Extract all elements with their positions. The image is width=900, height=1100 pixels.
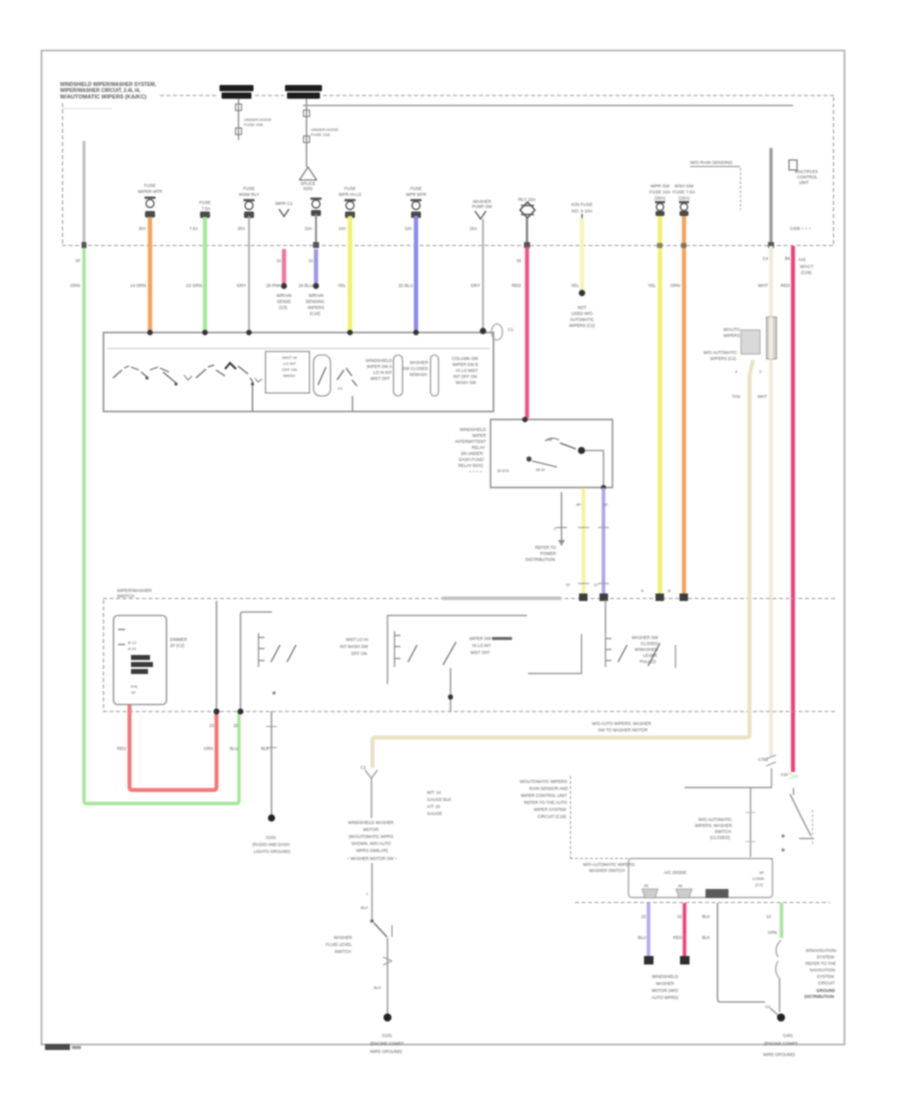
dashed fuse box boundary top <box>62 96 836 246</box>
svg-text:G201: G201 <box>266 835 277 840</box>
svg-text:WPR C1: WPR C1 <box>275 201 293 206</box>
svg-text:A10: A10 <box>781 772 789 777</box>
splice triangle label <box>301 181 316 191</box>
amperage label row y228 <box>139 226 478 231</box>
svg-text:WIPER CONTROL UNIT: WIPER CONTROL UNIT <box>521 793 568 798</box>
svg-text:MIST OFF: MIST OFF <box>471 650 491 655</box>
svg-text:REFER TO THE: REFER TO THE <box>806 961 837 966</box>
svg-text:COLUMN SW: COLUMN SW <box>452 356 478 361</box>
washer motor label mid <box>347 820 398 861</box>
stem tick label <box>361 892 369 910</box>
section 4 side pin <box>675 645 677 668</box>
wire PNK stub x284 <box>282 249 286 285</box>
svg-text:C1: C1 <box>508 327 514 332</box>
svg-text:WASHER: WASHER <box>334 935 352 940</box>
wire LT YEL x582 <box>580 218 584 291</box>
svg-text:WHT: WHT <box>757 394 767 399</box>
wire VIO stub x316 <box>314 249 318 285</box>
svg-text:BLK: BLK <box>361 906 369 910</box>
svg-text:GAUGE BLK: GAUGE BLK <box>427 797 451 802</box>
splice dot x284 <box>281 283 287 289</box>
inline connector marks <box>383 957 392 965</box>
ground label bottom middle <box>370 1033 404 1054</box>
svg-text:NAVIGATION: NAVIGATION <box>810 968 835 973</box>
svg-text:SHOWN, W/O AUTO: SHOWN, W/O AUTO <box>351 841 391 846</box>
wiper sw text block <box>366 358 393 381</box>
fuse F9 x684 <box>673 184 696 217</box>
intermittent relay box top line <box>491 420 613 488</box>
svg-text:10A: 10A <box>405 226 413 231</box>
drop wire x750 <box>750 788 752 857</box>
svg-text:FLUID LEVEL: FLUID LEVEL <box>326 942 353 947</box>
lower relay box title <box>664 870 687 875</box>
section 3 bracket <box>395 631 401 667</box>
svg-text:CONTROL: CONTROL <box>797 175 818 180</box>
svg-text:10A: 10A <box>339 226 347 231</box>
svg-text:~ WASHER MOTOR SW ~: ~ WASHER MOTOR SW ~ <box>347 856 398 861</box>
svg-text:C752: C752 <box>758 757 769 762</box>
wire GRY x240 hook <box>241 612 273 711</box>
svg-text:WINDSHIELD: WINDSHIELD <box>652 974 678 979</box>
wire VIO relay <box>602 488 606 595</box>
gray label band on separator <box>442 597 561 601</box>
svg-text:A 14: A 14 <box>128 646 137 651</box>
svg-text:22: 22 <box>677 914 682 919</box>
fuse F4 x316 <box>311 198 322 217</box>
label row y937 <box>638 930 777 940</box>
page number label bottom-left <box>45 1044 70 1050</box>
svg-text:15A: 15A <box>470 226 478 231</box>
svg-text:22: 22 <box>641 914 646 919</box>
svg-text:W/WASH: W/WASH <box>409 372 427 377</box>
svg-text:WPRS SIMILAR): WPRS SIMILAR) <box>356 848 388 853</box>
svg-text:4P: 4P <box>576 502 581 507</box>
wire ORN x684 <box>682 216 686 598</box>
svg-text:WPR HI-LO: WPR HI-LO <box>339 192 362 197</box>
fuse element marks drop1 <box>236 104 242 111</box>
switch blades group 3 <box>337 368 357 386</box>
switch pivot <box>370 919 374 923</box>
svg-text:30A: 30A <box>139 226 147 231</box>
svg-text:WASHER: WASHER <box>410 360 428 365</box>
wire ORN x150 <box>148 217 152 332</box>
pin stub x684 <box>676 884 692 898</box>
svg-text:(CLOSED): (CLOSED) <box>710 835 731 840</box>
svg-text:GRN: GRN <box>768 930 777 935</box>
svg-text:BLU: BLU <box>230 746 238 751</box>
svg-text:WHT: WHT <box>758 283 768 288</box>
svg-text:G101: G101 <box>382 1033 393 1038</box>
label under splice x582 <box>569 305 595 328</box>
connector box pins <box>118 630 125 645</box>
svg-text:YEL: YEL <box>648 283 657 288</box>
svg-text:AUTOMATIC: AUTOMATIC <box>570 317 594 322</box>
svg-text:W/O AUTOMATIC WIPERS:: W/O AUTOMATIC WIPERS: <box>583 862 635 867</box>
svg-text:W/ACT: W/ACT <box>800 264 814 269</box>
connector mark V x284 <box>275 201 293 217</box>
connector bubble right of box <box>492 324 503 340</box>
svg-text:WPR SW: WPR SW <box>651 184 671 189</box>
switch side bracket <box>391 925 393 937</box>
contact lead to right <box>585 451 604 488</box>
dashed fuse box boundary right <box>833 97 835 245</box>
fuse element marks drop2 <box>304 110 310 117</box>
svg-text:RAIN SENSOR AND: RAIN SENSOR AND <box>529 786 568 791</box>
svg-text:A/T: 16: A/T: 16 <box>427 804 441 809</box>
lever dashed guide <box>812 810 814 846</box>
lever dots <box>781 834 784 837</box>
wire PNK x527 lower <box>525 247 529 418</box>
svg-text:WIRE GROUND): WIRE GROUND) <box>763 1052 796 1057</box>
svg-text:C1: C1 <box>361 765 367 770</box>
svg-text:SENSING: SENSING <box>306 299 325 304</box>
text mid right <box>403 360 428 377</box>
fuse drop wire from box2 <box>306 99 308 167</box>
svg-text:PULLED: PULLED <box>640 659 656 664</box>
relay coil arc <box>545 438 559 441</box>
svg-text:22 GRN: 22 GRN <box>186 283 202 288</box>
bend label <box>765 1004 771 1009</box>
svg-text:INTERMITTENT: INTERMITTENT <box>455 439 486 444</box>
svg-text:INT WASH SW: INT WASH SW <box>340 644 368 649</box>
svg-text:A5: A5 <box>644 884 648 888</box>
svg-text:W/O AUTO WIPERS: WASHER: W/O AUTO WIPERS: WASHER <box>592 721 651 726</box>
svg-text:MOTOR (W/O: MOTOR (W/O <box>652 988 679 993</box>
svg-text:WPR MTR: WPR MTR <box>406 192 427 197</box>
svg-text:MIST LO HI: MIST LO HI <box>346 637 368 642</box>
wire CRM x771 <box>769 246 773 756</box>
fuse label drop2 <box>311 127 339 137</box>
svg-text:14 ORN: 14 ORN <box>130 283 146 288</box>
lower relay box <box>629 859 773 898</box>
switch blade bottom <box>374 923 387 937</box>
gray continues from green <box>779 978 781 1012</box>
bracket pins 3 <box>431 355 439 396</box>
text left of drop <box>695 817 732 840</box>
header box HOT AT ALL TIMES <box>220 85 254 99</box>
switch section 2 bracket <box>259 633 265 667</box>
wire YEL x350 <box>348 216 352 332</box>
drop ticks <box>746 813 756 842</box>
label row y916 <box>641 914 771 919</box>
fuse F5 x350 <box>339 186 362 218</box>
svg-text:POWER: POWER <box>540 551 556 556</box>
relay pivot blob <box>526 456 531 461</box>
splice dot x316 <box>313 283 319 289</box>
entry junction dots <box>147 328 486 336</box>
svg-text:(ENGINE COMPT: (ENGINE COMPT <box>764 1041 798 1046</box>
connector box lower left <box>114 616 167 705</box>
svg-text:SW TO WASHER MOTOR: SW TO WASHER MOTOR <box>598 728 648 733</box>
connector box dark rows <box>131 655 153 674</box>
svg-text:WASHER: WASHER <box>656 981 674 986</box>
wire BLK x316 <box>315 214 317 245</box>
fuse F8 x660 <box>649 184 670 217</box>
svg-text:OFF ON: OFF ON <box>351 651 367 656</box>
stub tick <box>556 527 567 529</box>
crimson end connector <box>789 773 798 779</box>
svg-text:LIGHTS GROUND): LIGHTS GROUND) <box>254 849 291 854</box>
washer stem lower <box>371 863 373 919</box>
svg-text:(W/AUTOMATIC WPRS: (W/AUTOMATIC WPRS <box>349 834 394 839</box>
wire RED x793 <box>791 246 795 772</box>
junction dot x216 <box>214 709 220 715</box>
junction marks on fuse box bottom <box>82 242 775 248</box>
connector mark V x483 <box>472 199 492 219</box>
svg-text:1: 1 <box>366 892 368 896</box>
svg-text:A6: A6 <box>678 884 682 888</box>
svg-text:GRY: GRY <box>237 283 247 288</box>
svg-text:WIPERS: WIPERS <box>723 333 740 338</box>
tick label <box>374 986 382 990</box>
svg-text:FUSE: FUSE <box>144 183 156 188</box>
svg-text:SYSTEM:: SYSTEM: <box>817 955 835 960</box>
fuse drop wire from box1 <box>238 99 240 140</box>
fuse F2 x205 <box>199 200 211 218</box>
switch section 3 box <box>388 616 528 685</box>
svg-text:WIPER MTR: WIPER MTR <box>138 189 163 194</box>
wire GRY x84 upper <box>83 141 86 245</box>
svg-text:10: 10 <box>75 258 80 263</box>
bracket text block left <box>520 779 568 819</box>
main switch box <box>104 333 494 412</box>
inline connector on green <box>776 940 781 978</box>
wire GRN x84 long <box>84 246 239 804</box>
VIO end square <box>644 956 654 965</box>
svg-text:WASH: WASH <box>283 373 295 378</box>
connector bubble label <box>508 327 514 332</box>
svg-text:DASH FUSE/: DASH FUSE/ <box>459 457 485 462</box>
svg-text:2P (C2): 2P (C2) <box>170 643 185 648</box>
common wire 2 below <box>352 396 354 411</box>
svg-text:YEL: YEL <box>571 283 580 288</box>
svg-text:30 87A: 30 87A <box>497 469 510 473</box>
ground dot x271 <box>268 814 275 821</box>
svg-text:12: 12 <box>276 258 281 263</box>
resistor stub <box>561 492 563 540</box>
svg-text:85: 85 <box>548 438 552 442</box>
svg-text:WIRE GROUND): WIRE GROUND) <box>370 1049 403 1054</box>
svg-text:W/O AUTOMATIC: W/O AUTOMATIC <box>698 817 732 822</box>
wire YEL x660 <box>658 216 662 598</box>
right refer text block <box>806 948 837 986</box>
svg-text:FUSE 15A: FUSE 15A <box>244 122 263 127</box>
dark chevron group 2 <box>225 363 236 369</box>
section 3 blades <box>408 642 456 665</box>
relay contact blob <box>578 447 585 454</box>
fuse F3 x249 <box>239 186 259 218</box>
svg-text:W/O RAIN SENSING: W/O RAIN SENSING <box>690 160 733 165</box>
svg-text:(C2): (C2) <box>755 882 763 887</box>
svg-text:~ ~ ~ ~: ~ ~ ~ ~ <box>469 469 483 474</box>
gray link cream to bus <box>771 768 773 787</box>
text block section 4 <box>632 635 658 664</box>
svg-text:WIPERS: WIPERS <box>308 305 325 310</box>
svg-text:MOTOR: MOTOR <box>363 827 379 832</box>
switch section 2 blades <box>271 645 296 662</box>
svg-text:WINDSHIELD: WINDSHIELD <box>366 358 392 363</box>
svg-text:22 BLU: 22 BLU <box>398 283 413 288</box>
labels y725 <box>209 723 238 728</box>
svg-text:MIST OFF: MIST OFF <box>371 376 391 381</box>
svg-text:P/N: P/N <box>131 685 138 689</box>
tick marks y583 <box>578 583 609 585</box>
svg-text:LO HI INT: LO HI INT <box>373 370 392 375</box>
relay lever <box>560 443 576 449</box>
header box HOT IN ON OR START <box>285 85 322 99</box>
ground dot bottom middle <box>384 1014 392 1022</box>
splice triangle <box>300 167 317 180</box>
svg-text:RED: RED <box>781 283 790 288</box>
svg-text:B6: B6 <box>785 256 791 261</box>
small v mark 2 <box>255 378 262 382</box>
svg-text:W/AUTOMATIC WIPERS (KA/KC): W/AUTOMATIC WIPERS (KA/KC) <box>60 95 147 101</box>
svg-text:20A: 20A <box>238 226 246 231</box>
wire GRY x216 <box>216 601 218 711</box>
fuse label drop1 <box>244 117 272 127</box>
wiper switch assembly label <box>117 588 152 599</box>
tick labels row y527 <box>554 502 609 531</box>
svg-text:WIPERS (C2): WIPERS (C2) <box>710 356 736 361</box>
bracket label top right <box>690 160 733 165</box>
svg-text:1P: 1P <box>603 502 608 507</box>
svg-text:GRN: GRN <box>70 283 80 288</box>
blade in bracket <box>318 367 326 385</box>
svg-text:12: 12 <box>308 258 313 263</box>
svg-text:12: 12 <box>766 914 771 919</box>
svg-text:SENSE: SENSE <box>277 299 291 304</box>
svg-text:OFF ON: OFF ON <box>282 367 297 372</box>
washer Y connector <box>365 770 378 778</box>
wire GRY x483 <box>482 219 484 332</box>
svg-text:(C18): (C18) <box>310 311 321 316</box>
cream end label <box>758 757 769 762</box>
bracket pins 2 <box>394 355 403 396</box>
svg-text:AUTO WPRS): AUTO WPRS) <box>652 995 679 1000</box>
pin stub x650 <box>642 884 658 898</box>
svg-text:RED: RED <box>512 283 521 288</box>
sub box with position table <box>266 352 310 394</box>
splice dot x582 <box>579 290 585 296</box>
pin numbers <box>735 369 762 374</box>
bracket text right <box>583 862 635 873</box>
svg-text:S201: S201 <box>303 186 313 191</box>
svg-text:ORN: ORN <box>670 283 680 288</box>
svg-text:WSW RLY: WSW RLY <box>239 192 259 197</box>
text block section 2 <box>340 637 368 656</box>
washer stem upper <box>371 778 373 818</box>
wire LT YEL relay <box>582 488 586 595</box>
tick marks y527 <box>578 527 609 529</box>
bracket pins 1 <box>314 355 331 396</box>
svg-text:MULTIPLEX: MULTIPLEX <box>795 169 818 174</box>
svg-text:LO INT: LO INT <box>283 361 296 366</box>
svg-text:WIPERS (C2): WIPERS (C2) <box>569 323 595 328</box>
washer connector label <box>361 765 367 770</box>
dashed separator y598 <box>103 598 836 600</box>
svg-text:NO. 5 10A: NO. 5 10A <box>571 209 592 214</box>
svg-text:FUSE 7.5A: FUSE 7.5A <box>673 190 696 195</box>
faint line under title <box>62 108 112 110</box>
svg-text:GRN: GRN <box>204 746 213 751</box>
labels y397 <box>732 394 768 399</box>
wire GRN x205 <box>203 217 207 332</box>
section 4 bracket <box>606 634 612 667</box>
link bar section 3 <box>492 637 512 640</box>
svg-text:SYSTEM: SYSTEM <box>817 974 835 979</box>
wire color label row y286 <box>70 283 790 288</box>
blade dot group2 <box>251 382 254 385</box>
wire GRY x271 ground drop <box>271 711 273 816</box>
end mark labels <box>641 589 671 593</box>
wire GRY thick x771 upper <box>769 148 772 245</box>
svg-text:W/NAVIGATION: W/NAVIGATION <box>806 948 836 953</box>
connector C labels lower <box>703 350 737 361</box>
svg-text:WIPER SW A: WIPER SW A <box>367 364 393 369</box>
inline connector C on cream wire <box>741 317 777 359</box>
svg-text:SWITCH: SWITCH <box>714 829 731 834</box>
junction dot x240 <box>238 709 244 715</box>
svg-text:HI LO INT: HI LO INT <box>472 643 491 648</box>
section 3 common wire <box>450 668 452 711</box>
dashed separator y711 <box>103 711 836 713</box>
fuse F6 x416 <box>406 186 427 218</box>
dashed bracket vertical <box>570 776 572 858</box>
wire GRY x249 <box>248 216 250 332</box>
svg-text:DIMMER: DIMMER <box>170 637 187 642</box>
svg-text:B 12: B 12 <box>128 640 137 645</box>
wire end mark VIO <box>600 594 609 602</box>
lever stem <box>793 788 795 795</box>
svg-text:WIPER SW: WIPER SW <box>469 636 491 641</box>
svg-text:BLK: BLK <box>702 914 710 919</box>
svg-text:USED W/O: USED W/O <box>571 311 593 316</box>
wire RED path <box>130 705 217 790</box>
svg-text:RLY 15A: RLY 15A <box>518 197 536 202</box>
svg-text:IGN FUSE: IGN FUSE <box>571 202 592 207</box>
svg-text:SWITCH: SWITCH <box>334 949 351 954</box>
relay label text <box>455 427 486 474</box>
label C406 right <box>790 226 811 231</box>
refer text block <box>525 545 556 562</box>
svg-text:W/AUTOMATIC WIPERS:: W/AUTOMATIC WIPERS: <box>520 779 568 784</box>
lever base tick <box>799 838 814 840</box>
svg-text:FUSE 10A: FUSE 10A <box>311 132 330 137</box>
svg-text:FUSE: FUSE <box>199 200 211 205</box>
ticks on ground drop <box>266 727 277 748</box>
label under VIO stub <box>306 293 325 316</box>
connector box small text <box>131 685 138 695</box>
svg-text:WIPER SYSTEM: WIPER SYSTEM <box>534 807 567 812</box>
svg-text:RED: RED <box>117 746 126 751</box>
junction dot bottom line <box>601 485 606 490</box>
svg-text:W/O AUTOMATIC: W/O AUTOMATIC <box>703 350 737 355</box>
bracket dashed drop <box>740 168 742 210</box>
dashed lead-in to relay box <box>570 858 773 860</box>
svg-text:(C3): (C3) <box>279 305 288 310</box>
wire TAN path <box>373 360 754 768</box>
horizontal bus y787 <box>685 787 773 789</box>
dashed assembly left edge <box>103 600 105 711</box>
svg-text:WIPER/WASHER: WIPER/WASHER <box>117 588 152 593</box>
svg-text:FUSE: FUSE <box>410 186 422 191</box>
washer motor label bottom <box>652 974 679 1000</box>
position table text <box>282 355 297 378</box>
svg-text:UNIT: UNIT <box>799 180 809 185</box>
svg-text:BLK: BLK <box>702 935 710 940</box>
svg-text:18 BLU: 18 BLU <box>298 283 313 288</box>
dashed fuse box boundary bottom <box>62 245 836 247</box>
